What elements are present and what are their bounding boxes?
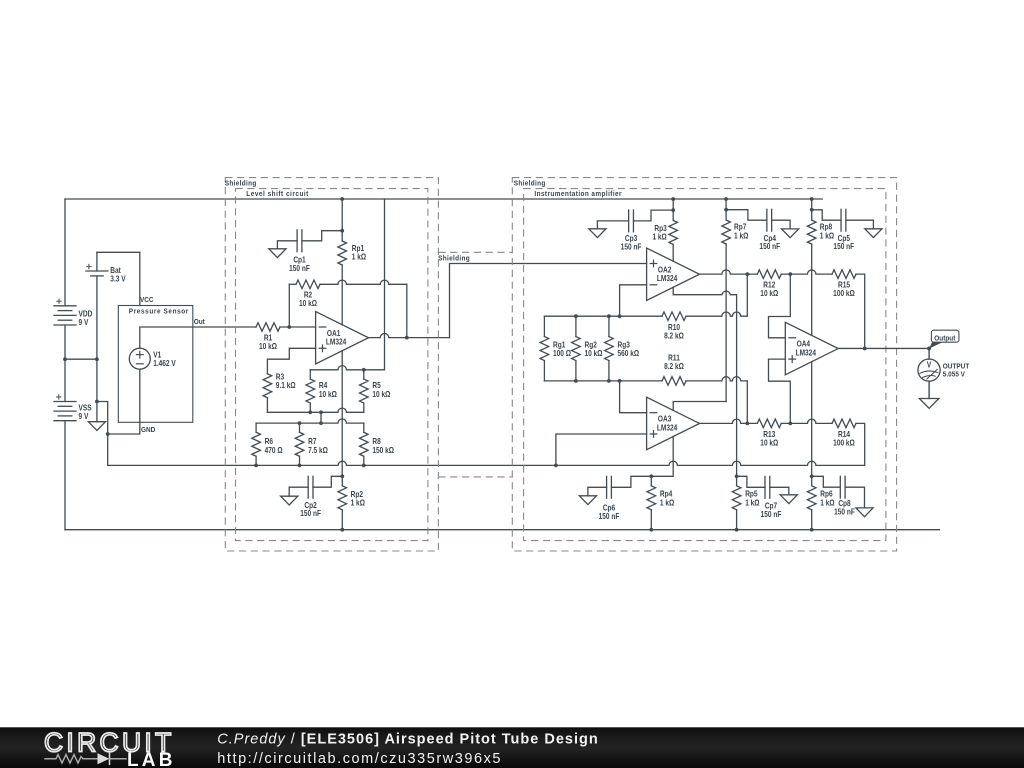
resistor Rg1 — [543, 316, 545, 336]
resistor R4 — [309, 370, 311, 379]
wire OA3 Vminus pin — [651, 436, 673, 476]
capacitor Cp4 — [766, 209, 768, 231]
source V1 — [129, 348, 150, 369]
svg-text:VCC: VCC — [140, 297, 154, 304]
wire R2 to output — [320, 280, 407, 284]
battery Bat 3.3V — [96, 252, 98, 271]
resistor R10 — [662, 312, 686, 321]
svg-text:1 kΩ: 1 kΩ — [352, 252, 366, 262]
ground Bat — [88, 422, 105, 431]
wire VSS to bottom rail — [64, 421, 66, 530]
svg-text:Level shift circuit: Level shift circuit — [246, 191, 309, 198]
wire Rg top line — [544, 315, 662, 317]
voltmeter OUTPUT — [928, 348, 930, 359]
shield box interconnect — [438, 251, 512, 253]
logo resistor-diode — [45, 755, 98, 763]
wire top VDD rail — [65, 198, 822, 200]
wire OA4 plus route — [769, 359, 791, 423]
bottom bar — [0, 727, 1024, 768]
resistor R12 — [757, 270, 781, 279]
svg-text:10 kΩ: 10 kΩ — [319, 389, 337, 399]
svg-text:470 Ω: 470 Ω — [265, 445, 283, 455]
capacitor Cp3 — [628, 210, 630, 232]
resistor Rp6 — [810, 474, 814, 478]
svg-text:9.1 kΩ: 9.1 kΩ — [276, 380, 296, 390]
resistor R7 — [299, 423, 301, 432]
wire OA3 output line — [700, 419, 758, 423]
svg-text:150 nF: 150 nF — [761, 509, 782, 519]
resistor R2 — [289, 283, 296, 285]
svg-text:OUTPUT: OUTPUT — [943, 363, 970, 370]
wire OA2 Vminus route — [673, 287, 736, 476]
ground Cp6 — [579, 496, 596, 505]
capacitor Cp7 — [764, 476, 766, 498]
ground Cp3 — [589, 229, 606, 238]
wire V1 top to Out — [140, 327, 256, 348]
svg-text:1 kΩ: 1 kΩ — [820, 231, 834, 241]
wire VCC — [97, 251, 140, 253]
svg-text:8.2 kΩ: 8.2 kΩ — [664, 361, 684, 371]
svg-text:150 kΩ: 150 kΩ — [372, 445, 394, 455]
ground Cp7 — [780, 495, 797, 504]
wire OA2 minus input — [620, 285, 647, 316]
svg-text:100 kΩ: 100 kΩ — [833, 289, 855, 299]
resistor Rp3 — [672, 199, 674, 220]
resistor Rp1 — [341, 199, 343, 241]
svg-text:1 kΩ: 1 kΩ — [745, 498, 759, 508]
svg-text:150 nF: 150 nF — [759, 241, 780, 251]
resistor Rp5 — [735, 474, 739, 478]
wire GND sense line — [108, 461, 865, 465]
wire OA1 output — [369, 333, 450, 337]
capacitor Cp8 — [839, 476, 841, 498]
capacitor Cp6 — [606, 476, 608, 498]
svg-text:9 V: 9 V — [79, 411, 89, 421]
resistor R6 — [255, 423, 257, 432]
wire OA4 Vminus pin — [811, 362, 813, 477]
resistor R1 — [256, 323, 280, 332]
wire OA3 plus input — [556, 434, 647, 465]
wire OA4 minus route — [769, 274, 791, 338]
node Rg top dots — [574, 314, 578, 318]
svg-text:Shielding: Shielding — [514, 180, 546, 187]
svg-text:560 kΩ: 560 kΩ — [618, 348, 640, 358]
ground Cp4 — [782, 229, 799, 238]
svg-text:LM324: LM324 — [657, 273, 678, 283]
op-amp OA3 — [647, 397, 700, 450]
resistor Rg2 — [575, 316, 577, 336]
shield box inner right — [524, 189, 886, 541]
svg-text:V: V — [927, 360, 931, 370]
resistor Rp2 — [340, 474, 344, 478]
flag Output — [931, 330, 959, 342]
svg-text:7.5 kΩ: 7.5 kΩ — [308, 445, 328, 455]
ground voltmeter — [919, 399, 939, 409]
svg-text:150 nF: 150 nF — [599, 511, 620, 521]
wire tap down — [320, 412, 322, 423]
svg-text:10 kΩ: 10 kΩ — [760, 438, 778, 448]
resistor R15 — [832, 270, 856, 279]
svg-text:Output: Output — [934, 335, 956, 342]
wire V1 bottom GND — [108, 369, 140, 434]
wire R2 left riser — [288, 284, 290, 327]
wire OA3 minus input — [620, 381, 647, 413]
wire R4 R5 bottom line — [267, 408, 363, 412]
svg-text:150 nF: 150 nF — [833, 241, 854, 251]
svg-text:1 kΩ: 1 kΩ — [734, 231, 748, 241]
resistor R13 — [757, 419, 781, 428]
wire bottom VSS rail — [65, 529, 940, 531]
svg-text:Shielding: Shielding — [225, 180, 257, 187]
svg-text:http://circuitlab.com/czu335rw: http://circuitlab.com/czu335rw396x5 — [217, 751, 502, 767]
wire VDD to mid junction — [64, 325, 66, 402]
shield box inner left — [236, 189, 428, 541]
svg-text:1 kΩ: 1 kΩ — [652, 232, 666, 242]
svg-text:150 nF: 150 nF — [300, 508, 321, 518]
resistor R5 — [363, 370, 365, 379]
battery VSS — [54, 401, 76, 403]
op-amp OA2 — [647, 248, 700, 301]
resistor R14 — [832, 419, 856, 428]
svg-text:100 Ω: 100 Ω — [553, 348, 571, 358]
wire OA2 output line — [700, 270, 758, 274]
resistor Rp4 — [649, 474, 653, 478]
svg-text:1 kΩ: 1 kΩ — [820, 498, 834, 508]
ground Cp5 — [865, 229, 882, 238]
svg-text:LM324: LM324 — [657, 423, 678, 433]
svg-text:1.462 V: 1.462 V — [153, 358, 176, 368]
svg-text:150 nF: 150 nF — [834, 507, 855, 517]
op-amp OA4 — [785, 322, 838, 375]
shield box outer left — [225, 178, 438, 551]
wire Bat gnd jog — [97, 402, 108, 466]
svg-text:Shielding: Shielding — [438, 255, 470, 262]
wire VDD-Bat link — [65, 358, 97, 360]
capacitor Cp5 — [840, 209, 842, 231]
wire OA1 Vminus pin — [341, 351, 343, 476]
wire R4 R5 top line — [310, 366, 384, 370]
capacitor Cp2 — [307, 476, 309, 498]
svg-text:Pressure Sensor: Pressure Sensor — [129, 308, 189, 315]
svg-text:10 kΩ: 10 kΩ — [299, 298, 317, 308]
wire OA4 output — [838, 347, 929, 349]
svg-text:3.3 V: 3.3 V — [110, 274, 125, 284]
svg-text:8.2 kΩ: 8.2 kΩ — [664, 331, 684, 341]
resistor Rg3 — [608, 316, 610, 336]
wire left rail upper — [64, 199, 66, 306]
resistor R11 — [662, 377, 686, 386]
svg-text:LM324: LM324 — [796, 348, 817, 358]
svg-text:10 kΩ: 10 kΩ — [585, 348, 603, 358]
resistor R3 — [263, 374, 272, 398]
battery VDD — [54, 305, 76, 307]
wire Rg bottom line — [544, 380, 662, 382]
resistor Rp8 — [811, 199, 813, 220]
ground Cp2 — [281, 496, 298, 505]
svg-text:Out: Out — [194, 319, 206, 326]
wire OA1 plus input — [267, 348, 315, 373]
svg-text:LM324: LM324 — [326, 337, 347, 347]
svg-text:10 kΩ: 10 kΩ — [372, 389, 390, 399]
svg-text:GND: GND — [141, 427, 155, 434]
resistor R8 — [363, 423, 365, 432]
svg-text:10 kΩ: 10 kΩ — [760, 289, 778, 299]
svg-text:100 kΩ: 100 kΩ — [833, 438, 855, 448]
svg-text:C.Preddy / [ELE3506] Airspeed: C.Preddy / [ELE3506] Airspeed Pitot Tube… — [217, 732, 598, 748]
svg-text:LAB: LAB — [127, 750, 176, 768]
ground Cp8 — [856, 508, 873, 517]
svg-text:150 nF: 150 nF — [621, 242, 642, 252]
resistor Rp7 — [725, 199, 727, 220]
svg-text:1 kΩ: 1 kΩ — [660, 498, 674, 508]
svg-text:9 V: 9 V — [79, 317, 89, 327]
ground Cp1 — [269, 249, 286, 258]
svg-text:Instrumentation amplifier: Instrumentation amplifier — [534, 191, 622, 198]
svg-text:5.055 V: 5.055 V — [943, 371, 966, 378]
svg-text:10 kΩ: 10 kΩ — [259, 341, 277, 351]
pressure sensor box — [118, 306, 193, 423]
op-amp OA1 — [316, 312, 369, 365]
wire R6 R7 R8 top line — [256, 419, 364, 423]
svg-text:150 nF: 150 nF — [289, 263, 310, 273]
capacitor Cp1 — [296, 230, 298, 252]
shield box outer right — [512, 178, 896, 551]
svg-text:1 kΩ: 1 kΩ — [351, 498, 365, 508]
wire OA3 Vplus route — [673, 402, 726, 411]
